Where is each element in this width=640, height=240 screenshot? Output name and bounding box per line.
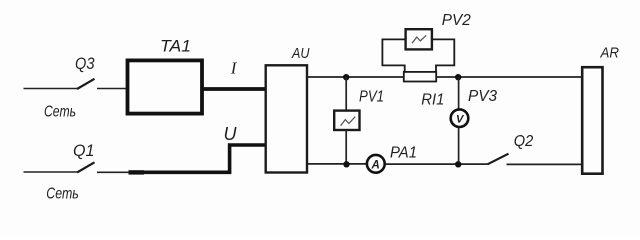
load AR	[582, 67, 602, 174]
wire U (thick) with step up to AU	[131, 145, 266, 172]
wire: Q2 to AR	[507, 163, 582, 165]
wire: mains to Q3	[24, 88, 78, 90]
wire: drop to voltmeter	[458, 77, 460, 109]
wire: PV2 loop left	[382, 39, 405, 72]
svg-text:AR: AR	[600, 46, 620, 62]
node: junction bottom PV3	[455, 161, 461, 167]
wire U start bulge	[129, 170, 145, 174]
wire: Q3 to TA1	[97, 88, 127, 90]
svg-text:TA1: TA1	[160, 38, 191, 56]
svg-text:Сеть: Сеть	[44, 104, 76, 121]
switch Q3 blade	[77, 79, 95, 89]
svg-text:PA1: PA1	[390, 145, 417, 162]
wire I (thick): TA1 to AU	[203, 87, 266, 91]
svg-text:Сеть: Сеть	[46, 186, 79, 203]
wire: PV1 drop from top wire	[345, 77, 347, 111]
meter PV2 box	[406, 29, 432, 49]
voltmeter PV3	[451, 109, 469, 127]
ammeter PA1	[367, 155, 385, 173]
PV1 wave symbol	[341, 117, 356, 126]
switch Q1 blade	[77, 162, 95, 172]
svg-text:PV2: PV2	[442, 12, 471, 29]
svg-text:RI1: RI1	[421, 92, 444, 109]
wire: PV1 to bottom wire	[345, 130, 347, 164]
node: junction top PV3	[455, 74, 461, 80]
wire: PV2 loop right	[432, 39, 454, 72]
wire: RI1 to AR	[436, 76, 581, 78]
svg-text:Q2: Q2	[514, 133, 534, 150]
regulator AU	[266, 65, 307, 172]
svg-text:A: A	[371, 159, 380, 171]
svg-text:PV1: PV1	[359, 89, 384, 106]
svg-text:AU: AU	[291, 46, 310, 62]
meter PV1 box	[334, 111, 359, 130]
wire: AU top output to RI1	[307, 76, 404, 78]
switch Q2 blade	[488, 154, 509, 165]
wire: PA1 to Q2	[386, 163, 488, 165]
resistor RI1	[404, 72, 436, 82]
svg-text:Q3: Q3	[75, 55, 95, 73]
wire: Q1 stub	[97, 171, 134, 173]
svg-text:PV3: PV3	[468, 88, 497, 105]
svg-text:I: I	[230, 59, 238, 78]
svg-text:Q1: Q1	[73, 142, 95, 160]
node: junction bottom PV1	[343, 161, 349, 167]
wire: voltmeter to bottom wire	[458, 128, 460, 165]
PV2 wave symbol	[412, 35, 426, 43]
wire: mains to Q1	[24, 171, 78, 173]
svg-text:U: U	[224, 124, 238, 144]
wire: AU bottom output to PA1	[308, 163, 367, 165]
node: junction top PV1	[343, 74, 349, 80]
transformer TA1	[128, 60, 203, 113]
